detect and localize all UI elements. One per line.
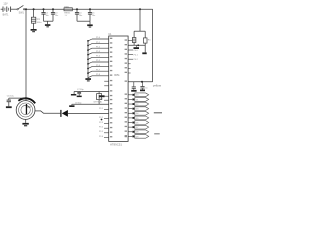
pin stub right 1	[128, 54, 133, 56]
ground for C4 C5	[89, 21, 91, 24]
node rail C3 junction	[52, 8, 54, 10]
node bus junction 1	[87, 45, 89, 47]
pin stub left lower 2	[104, 118, 109, 120]
svg-text:P3.1: P3.1	[99, 108, 103, 110]
wire rail to reset	[139, 9, 141, 31]
net terminal flag 5	[128, 117, 132, 119]
wire reset top bar	[134, 30, 145, 32]
net terminal flag 9	[128, 135, 132, 137]
wire bus to pin P1.7	[88, 71, 92, 73]
svg-text:10n: 10n	[55, 15, 58, 17]
capacitor C2	[43, 9, 45, 12]
svg-text:10n: 10n	[46, 15, 49, 17]
wire C2-C3 bottoms	[44, 20, 54, 22]
wire bus to pin P1.2	[88, 48, 92, 50]
capacitor C11	[142, 82, 144, 87]
resistor R1 right leg	[144, 31, 146, 38]
diode D1	[60, 110, 61, 117]
wire bus to pin P1.5	[88, 62, 92, 64]
net label dash right 2	[154, 133, 160, 134]
svg-text:C7 30p: C7 30p	[77, 89, 84, 91]
svg-text:AT89C51: AT89C51	[110, 143, 122, 147]
wire bus to pin P1.3	[88, 53, 92, 55]
speaker LS1 coil tick	[27, 106, 31, 108]
speaker LS1 inner circles	[19, 103, 33, 117]
pin numbers right column	[125, 39, 127, 40]
pin stub left lower 3	[104, 122, 109, 124]
speaker LS1 coil bar	[26, 104, 27, 114]
node rail-motor junction	[25, 8, 27, 10]
pin stub left lower 0	[104, 99, 109, 101]
pin stub left lower 1	[104, 108, 109, 110]
pin stub right 0	[128, 49, 133, 51]
capacitor C9 left leg	[133, 31, 135, 37]
pin stub left 81	[104, 80, 109, 82]
capacitor C6	[8, 98, 10, 100]
node rail C5 junction	[89, 8, 91, 10]
wire bus to pin P1.8	[88, 76, 92, 78]
crystal X1	[98, 92, 100, 94]
net terminal flag 3	[128, 108, 132, 110]
node rail C2 junction	[43, 8, 45, 10]
wire C6 to speaker wire	[9, 97, 26, 99]
wire diode to IC	[68, 112, 109, 114]
svg-text:7805: 7805	[64, 6, 70, 8]
svg-text:P3.3: P3.3	[99, 122, 103, 124]
pin stub left lower 4	[104, 127, 109, 129]
ground for speaker	[22, 123, 28, 125]
svg-text:P3.2: P3.2	[99, 117, 103, 119]
op-amp U1 microcontroller body	[109, 36, 128, 141]
ground left of XTAL2 wire	[71, 104, 73, 105]
capacitor C4	[76, 9, 78, 12]
wire EA pin stub	[128, 40, 132, 42]
wire rail right down	[152, 9, 154, 82]
svg-text:100u: 100u	[37, 22, 43, 24]
battery BAT1	[1, 8, 3, 10]
net terminal flag 4	[128, 112, 132, 114]
capacitor C5	[89, 9, 91, 12]
svg-text:P3.6: P3.6	[99, 136, 103, 138]
svg-text:CRYSTAL: CRYSTAL	[93, 101, 103, 104]
node rail reset junction	[139, 8, 141, 10]
speaker LS1 outer circle	[16, 101, 35, 120]
regulator U2 box	[64, 8, 72, 11]
capacitor C1	[33, 9, 35, 17]
svg-text:10n: 10n	[92, 15, 95, 17]
node bus junction 6	[87, 68, 89, 70]
pin stub left lower 6	[104, 136, 109, 138]
ground for bus	[85, 78, 91, 80]
svg-text:8051: 8051	[114, 74, 120, 77]
svg-text:10n: 10n	[79, 15, 82, 17]
svg-text:P3.4: P3.4	[99, 127, 103, 129]
pin stub left 86	[104, 85, 109, 87]
ground for C10	[131, 90, 136, 92]
wire rail to sounder	[25, 9, 27, 101]
node rail C1 junction	[33, 8, 35, 10]
ground for C2 C3	[47, 21, 49, 24]
node C6 junction	[25, 97, 27, 99]
capacitor C3	[52, 9, 54, 12]
svg-text:yellow: yellow	[153, 84, 162, 88]
node bus junction 5	[87, 63, 89, 65]
node bus junction 3	[87, 54, 89, 56]
wire C4-C5 bottoms	[77, 20, 90, 22]
svg-text:1n: 1n	[145, 87, 147, 89]
wire yellow net horizontal	[128, 81, 153, 83]
ground for C1	[31, 29, 37, 31]
node bus junction 0	[87, 40, 89, 42]
net label dash right 1	[154, 112, 162, 113]
ground for C11	[140, 90, 145, 92]
ground left of crystal	[73, 92, 75, 95]
ground for R1	[142, 52, 146, 54]
node dot lower left	[101, 119, 103, 121]
ground for reset wire	[135, 45, 137, 47]
pin stub right short 1	[128, 67, 131, 69]
net terminal flag 1	[128, 98, 132, 100]
wire bus to pin P1.1	[88, 44, 92, 46]
pin numbers left column	[110, 38, 112, 39]
svg-text:C8 30p: C8 30p	[75, 102, 82, 104]
wire bus to pin P1.0	[88, 39, 92, 41]
node rail C4 junction	[76, 8, 78, 10]
ground for C7	[77, 96, 82, 98]
net terminal flag 6	[128, 122, 132, 124]
wire bus to pin P1.4	[88, 57, 92, 59]
net terminal flag 0	[128, 94, 132, 96]
net terminal flag 7	[128, 126, 132, 128]
speaker LS1 magnet arc	[18, 98, 35, 103]
wire crystal top XTAL1	[74, 91, 109, 93]
svg-text:SW1: SW1	[19, 12, 25, 15]
pin stub left lower 5	[104, 132, 109, 134]
node bus junction 4	[87, 58, 89, 60]
svg-text:BAT1: BAT1	[3, 14, 9, 17]
capacitor C10	[133, 82, 135, 87]
wire bus to pin P1.6	[88, 67, 92, 69]
net terminal flag 8	[128, 131, 132, 133]
net terminal flag 2	[128, 103, 132, 105]
svg-text:P3.0: P3.0	[99, 99, 103, 101]
wire sounder bottom to ground	[25, 119, 27, 123]
svg-text:U1: U1	[108, 32, 112, 36]
switch SW1	[17, 9, 18, 10]
pin stub right short 0	[128, 63, 131, 65]
capacitor C7	[78, 91, 80, 94]
node yellow junction	[141, 81, 143, 83]
node reset junction	[137, 44, 139, 46]
ground for C6	[6, 106, 12, 108]
pin stub right short 2	[128, 72, 131, 74]
ground bar near pin 20	[105, 95, 109, 97]
node bus junction 7	[87, 72, 89, 74]
wire VCC rail	[25, 8, 64, 10]
wire speaker to diode	[35, 110, 41, 112]
svg-text:C6 10u: C6 10u	[7, 95, 15, 97]
bus wire left	[87, 41, 89, 79]
node bus junction 2	[87, 49, 89, 51]
svg-text:12V: 12V	[3, 3, 8, 6]
wire crystal bottom XTAL2	[72, 103, 109, 105]
wire reset to IC pin	[128, 44, 145, 46]
svg-text:P3.5: P3.5	[99, 131, 103, 133]
pin stub right 2	[128, 58, 133, 60]
